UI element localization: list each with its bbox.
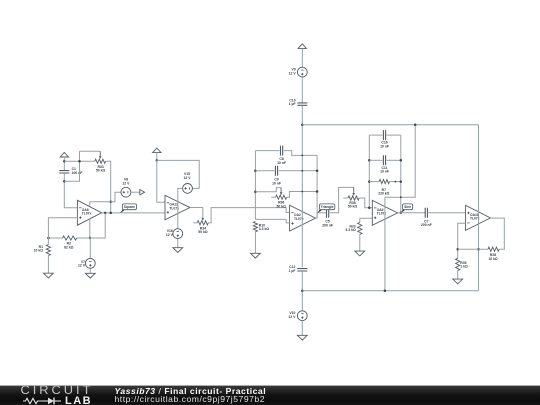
wire R34 left stub <box>193 222 197 224</box>
junction R7 lead mark <box>395 181 397 183</box>
junction R7 right <box>400 180 403 183</box>
wire feedback box right rail <box>400 135 402 213</box>
svg-text:100 nF: 100 nF <box>72 171 83 175</box>
wire C11 row <box>369 159 382 161</box>
wire C16 row <box>369 134 382 136</box>
ground below R23 <box>355 251 365 256</box>
capacitor C8 <box>281 146 283 156</box>
junction top rail V+ tap <box>414 123 417 126</box>
crossing mark V+ path <box>400 196 402 198</box>
svg-text:1 µF: 1 µF <box>289 102 296 106</box>
svg-text:50 kΩ: 50 kΩ <box>96 169 106 173</box>
capacitor C11 <box>383 155 385 165</box>
wire V16 to ground <box>177 239 179 248</box>
voltage source V15 <box>183 184 193 194</box>
crossing mark feedback row <box>477 248 480 251</box>
resistor R34 (potentiometer 50k) <box>197 221 208 225</box>
svg-text:3.3 kΩ: 3.3 kΩ <box>345 228 356 232</box>
wire V7 to ground <box>89 268 91 273</box>
named node flag Sine <box>401 209 406 213</box>
wire R38 right to OA9 inverting input <box>359 198 372 208</box>
wire feedback box left rail <box>368 135 370 208</box>
resistor R1 <box>46 245 50 256</box>
wire R38 left stub <box>343 197 348 199</box>
ground below V10 <box>297 335 307 340</box>
svg-text:12 V: 12 V <box>78 264 86 268</box>
wire OA9 output to C7 <box>398 212 425 214</box>
svg-text:10 nF: 10 nF <box>380 170 389 174</box>
wire OA8 non-inverting input <box>48 218 77 245</box>
svg-text:TL07x: TL07x <box>82 212 92 216</box>
junction bottom rail V- tap <box>384 289 387 292</box>
svg-text:10 kΩ: 10 kΩ <box>488 257 498 261</box>
svg-text:10 nF: 10 nF <box>277 161 286 165</box>
voltage source V9 <box>297 67 307 77</box>
wire feedback row to R28 <box>458 248 488 250</box>
svg-text:82 kΩ: 82 kΩ <box>64 245 74 249</box>
ground below V16 <box>173 248 183 253</box>
wire OA9 V- supply path <box>384 197 386 291</box>
op-amp OA2 <box>290 205 316 231</box>
wire feedback right rail <box>316 155 318 218</box>
wire C1 bottom to OA8 inverting input <box>64 173 77 208</box>
wire V7 stem <box>89 238 91 258</box>
crossing mark R36 row <box>301 191 303 193</box>
op-amp OA12 <box>165 195 190 220</box>
wire OA11 inverting input to feedback node <box>458 223 466 258</box>
wire C12 to V10 <box>301 271 303 311</box>
resistor R38 (potentiometer 50k) <box>348 196 359 200</box>
op-amp OA8 <box>77 200 101 225</box>
voltage source V8 <box>121 187 131 197</box>
CircuitLab logo text CIRCUIT <box>21 383 94 397</box>
junction bottom rail <box>301 289 304 292</box>
junction R36 right <box>316 190 319 193</box>
wire C7 to OA11 non-inverting input <box>428 212 466 214</box>
wire C9 row left <box>255 170 274 172</box>
wire top supply rail <box>302 124 478 126</box>
svg-text:10 nF: 10 nF <box>272 181 281 185</box>
wire V10 to ground <box>301 321 303 336</box>
named node flag Triangle <box>317 209 323 213</box>
node flag N2 <box>153 148 161 153</box>
junction C9 right <box>316 170 319 173</box>
junction C11 right <box>400 159 403 162</box>
wire R36 right to feedback right rail <box>287 192 317 198</box>
op-amp OA9 <box>372 200 397 225</box>
wire R34 right to OA2 inverting input <box>208 208 289 223</box>
svg-text:12 V: 12 V <box>184 176 192 180</box>
junction C9 left <box>254 170 257 173</box>
wire R28 right to OA11 output <box>490 218 504 249</box>
wire R39 to ground <box>457 271 459 280</box>
junction V- node <box>89 237 92 240</box>
svg-text:Square: Square <box>124 205 135 209</box>
wire R7 row right <box>390 181 401 183</box>
wire OA8 output to OA12 <box>102 212 165 214</box>
junction C1 bottom <box>63 180 66 183</box>
ground below R10 <box>251 253 261 258</box>
wire R36 wiper bracket <box>255 188 281 192</box>
voltage source V10 <box>297 311 307 321</box>
wire R23 to ground <box>359 234 361 251</box>
wire bottom supply rail <box>302 290 478 292</box>
svg-text:12 V: 12 V <box>288 315 296 319</box>
wire OA2 output jog <box>316 213 326 218</box>
svg-text:10 kΩ: 10 kΩ <box>34 249 44 253</box>
wire C8 row left <box>255 150 279 152</box>
svg-text:Triangle: Triangle <box>321 205 334 209</box>
ground below R1 <box>44 273 54 278</box>
junction OA9 output <box>400 212 403 215</box>
junction C11 left <box>368 159 371 162</box>
wire R36 left stub <box>271 196 276 198</box>
resistor R23 <box>358 222 362 234</box>
wire C5 to R38 wiper <box>330 187 354 212</box>
svg-text:12 V: 12 V <box>289 71 297 75</box>
wire R33 right to output node <box>106 161 111 213</box>
wire R2 left to R1 top <box>48 237 62 239</box>
wire C9 row right <box>279 170 318 172</box>
crossing mark C9 row <box>301 170 303 172</box>
node A junction <box>63 160 66 163</box>
capacitor C12 <box>297 269 307 271</box>
resistor R10 <box>253 222 257 232</box>
op-amp OA11 <box>466 205 491 230</box>
capacitor C16 <box>383 130 385 140</box>
junction output feedback <box>104 212 107 215</box>
svg-text:220 kΩ: 220 kΩ <box>378 192 389 196</box>
wire N2 to V15 positive loop <box>157 160 199 188</box>
svg-text:1 µF: 1 µF <box>289 269 296 273</box>
capacitor C1 <box>59 171 69 173</box>
node flag N3 (top supply arrow) <box>298 44 306 49</box>
wire feedback to R2/R1 divider <box>77 213 106 238</box>
svg-text:50 kΩ: 50 kΩ <box>198 230 208 234</box>
output flag of V8 <box>140 190 145 195</box>
capacitor C10 <box>297 103 307 105</box>
wire N2 down to OA12 inverting input <box>157 160 165 202</box>
wire N1 stem <box>63 157 65 170</box>
svg-text:12 V: 12 V <box>166 233 174 237</box>
wire C1 bypass bottom bracket <box>64 151 79 181</box>
wire OA2 non-inverting input <box>255 219 289 223</box>
wire feedback left rail <box>254 151 256 220</box>
wire R1 to ground <box>47 256 49 274</box>
voltage source V16 <box>173 229 183 239</box>
svg-text:3.3 kΩ: 3.3 kΩ <box>259 227 270 231</box>
svg-text:50 kΩ: 50 kΩ <box>277 204 287 208</box>
svg-text:50 kΩ: 50 kΩ <box>348 205 358 209</box>
CircuitLab logo text LAB <box>65 395 92 405</box>
footer title text <box>115 386 267 396</box>
CircuitLab logo schematic glyph <box>23 397 63 405</box>
resistor R36 (potentiometer 50k) <box>276 195 287 199</box>
wire C8 row right with jog <box>284 151 317 156</box>
junction OA9 inverting node <box>368 207 371 210</box>
wire OA9 V+ supply path <box>385 125 415 198</box>
wire node A to R33 left <box>64 160 95 162</box>
capacitor C7 <box>425 208 427 218</box>
junction R7 left <box>368 180 371 183</box>
ground below R39 <box>453 279 463 284</box>
wire R7 row left <box>369 181 379 183</box>
wire supply rail center <box>301 106 303 268</box>
ground below V7 <box>85 273 95 278</box>
wire OA8 V- pin <box>89 219 91 238</box>
wire R10 to ground <box>254 232 256 254</box>
svg-text:200 nF: 200 nF <box>421 223 432 227</box>
wire OA12 output to R34 wiper <box>190 208 203 219</box>
svg-text:1 kΩ: 1 kΩ <box>460 265 468 269</box>
node flag N1 (top-left supply arrow) <box>60 152 68 157</box>
junction at R33 left <box>78 160 81 163</box>
wire OA8 V+ pin <box>90 202 111 207</box>
wire V9 to C10 <box>301 77 303 103</box>
named node flag Square <box>120 209 126 213</box>
resistor R28 <box>488 247 499 251</box>
footer url text <box>115 394 266 404</box>
wire OA11 supply rail <box>478 125 480 291</box>
svg-text:10 nF: 10 nF <box>380 144 389 148</box>
junction feedback node <box>456 248 459 251</box>
svg-text:12 V: 12 V <box>122 181 130 185</box>
capacitor C5 <box>327 208 329 218</box>
resistor R33 (potentiometer 50k) <box>95 159 106 163</box>
crossing mark C8 row <box>301 155 303 157</box>
wire V15 to OA12 V+ rail <box>178 188 183 228</box>
junction V+ tap <box>109 200 112 203</box>
wire V8 negative lead <box>111 192 121 202</box>
resistor R7 <box>379 180 389 184</box>
wire R33 wiper top bracket <box>80 150 101 152</box>
junction N2 <box>156 159 159 162</box>
wire OA9 non-inverting input to R23 <box>360 218 373 222</box>
wire N2 stem <box>156 153 158 161</box>
wire N3 to V9 <box>301 48 303 67</box>
svg-text:Sine: Sine <box>404 205 411 209</box>
svg-text:200 nF: 200 nF <box>322 223 333 227</box>
junction R36 wiper left <box>254 190 257 193</box>
resistor R39 <box>456 258 460 270</box>
resistor R2 <box>63 236 77 240</box>
voltage source V7 <box>85 258 95 268</box>
wire V- node to V7 <box>77 237 106 239</box>
wire C16 row right <box>387 134 401 136</box>
junction R1 top <box>47 237 50 240</box>
wire V8 to flag <box>131 191 140 193</box>
junction top rail <box>301 123 304 126</box>
junction output R33 <box>109 212 112 215</box>
capacitor C9 <box>275 166 277 176</box>
wire C11 row right <box>387 159 401 161</box>
